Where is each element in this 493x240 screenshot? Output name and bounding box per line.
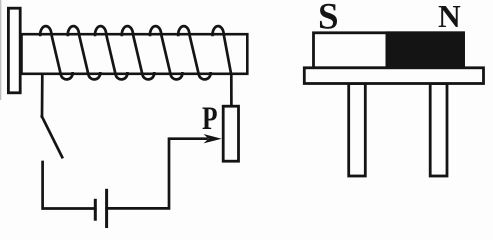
bar magnet N half (black)	[386, 31, 465, 69]
bar magnet outline	[314, 33, 464, 68]
table left leg	[349, 84, 366, 177]
svg-text:P: P	[202, 101, 218, 137]
coil turn 1	[40, 26, 72, 79]
table right leg	[430, 84, 447, 177]
wire: coil left lead down to switch	[41, 75, 44, 116]
coil turn 5	[150, 26, 182, 79]
battery plate (short)	[94, 200, 97, 219]
rheostat body R	[223, 106, 238, 161]
battery plate (long)	[105, 190, 108, 226]
coil turn 3	[95, 26, 127, 79]
coil turn 7 (last, lead to rheostat)	[212, 26, 231, 106]
arrowhead of slider pointer	[204, 134, 222, 143]
coil turn 2	[68, 26, 100, 79]
svg-text:N: N	[438, 0, 461, 34]
coil turn 6	[178, 26, 210, 79]
table top	[304, 68, 483, 84]
switch blade (open)	[42, 117, 62, 158]
coil turn 4	[122, 26, 154, 79]
faint scan artifact left edge	[0, 0, 2, 100]
wire: lower switch contact down and bottom wire to battery	[43, 162, 96, 209]
wire: battery to riser and arrow line toward rheostat slider	[107, 139, 207, 209]
solenoid core rod	[22, 34, 248, 74]
iron core left flange	[8, 8, 20, 93]
